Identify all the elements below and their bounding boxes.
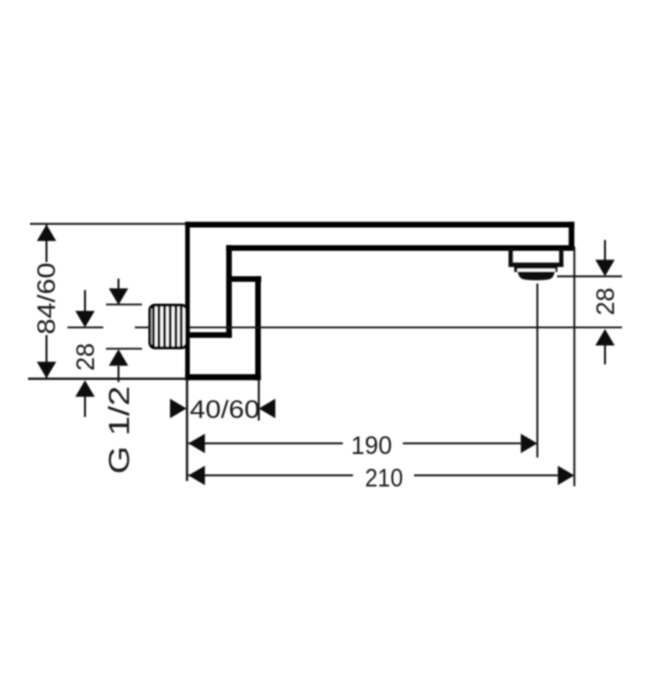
wire 210 dim line left bbox=[188, 474, 353, 476]
wire 190 extension bbox=[536, 284, 538, 458]
wire right28 leader above bbox=[604, 240, 606, 260]
wire escutcheon right edge bbox=[255, 276, 261, 380]
wire right28 leader below bbox=[604, 345, 606, 364]
arrow G12 up bbox=[109, 349, 128, 366]
svg-text:190: 190 bbox=[351, 432, 392, 460]
wire left28 leader below bbox=[84, 396, 86, 417]
wire centerline seg1 bbox=[67, 327, 103, 329]
svg-text:G 1/2: G 1/2 bbox=[104, 386, 136, 474]
wire G12 tick top bbox=[106, 304, 142, 306]
wire inlet bottom horizontal bbox=[187, 332, 232, 338]
arrow left28 down bbox=[75, 311, 94, 328]
wire centerline main bbox=[189, 327, 622, 329]
wire top extension line bbox=[30, 223, 186, 225]
wire centerline seg2 bbox=[135, 327, 150, 329]
wire 40/60 right extension bbox=[258, 379, 260, 421]
wire aerator step1 bottom bbox=[509, 263, 564, 267]
arrow 190 left bbox=[188, 434, 205, 453]
wire bottom-left extension line bbox=[28, 378, 186, 380]
wire inner vertical bbox=[226, 245, 232, 338]
wire 210 extension bbox=[573, 247, 575, 487]
wire 84/60 dim line upper bbox=[46, 224, 48, 262]
wire G12 tick bottom bbox=[106, 348, 142, 350]
arrow 210 left bbox=[188, 466, 205, 485]
arrow 40/60 right-side bbox=[259, 399, 276, 418]
wire left28 leader above bbox=[84, 290, 86, 312]
svg-text:28: 28 bbox=[72, 343, 100, 371]
thin lines bbox=[28, 223, 622, 486]
wire aerator step2 band bbox=[514, 267, 557, 273]
arrow right28 down bbox=[595, 260, 614, 277]
svg-text:210: 210 bbox=[365, 464, 403, 492]
arrow 84/60 up bbox=[37, 225, 56, 242]
wire escutcheon bottom bbox=[185, 374, 261, 380]
wire arm right edge bbox=[569, 222, 575, 249]
wire 40/60 left extension bbox=[186, 379, 188, 481]
wire wall plate left edge bbox=[185, 222, 190, 381]
aerator outlet bbox=[509, 249, 564, 281]
wire G12 leader below bbox=[118, 366, 120, 382]
svg-text:28: 28 bbox=[592, 288, 620, 316]
wire 190 dim line left bbox=[188, 442, 342, 444]
wire escutcheon top bbox=[228, 276, 261, 282]
connector body outline bbox=[150, 305, 187, 348]
wire aerator step1 left bbox=[509, 249, 513, 268]
wire right28 extension bbox=[557, 275, 622, 277]
arrows bbox=[37, 225, 615, 486]
aerator step2 face bbox=[517, 269, 555, 272]
wire 210 dim line right bbox=[414, 474, 558, 476]
wire 190 dim line right bbox=[403, 442, 521, 444]
arrow left28 up bbox=[75, 380, 94, 397]
wire top arm top edge bbox=[185, 222, 574, 228]
wire arm bottom edge bbox=[226, 245, 574, 251]
spout body outline bbox=[185, 222, 574, 381]
wire 84/60 dim line lower bbox=[46, 335, 48, 379]
wire G12 leader above bbox=[118, 279, 120, 290]
wire aerator step1 right bbox=[559, 249, 563, 268]
arrow 40/60 left-side bbox=[170, 399, 187, 418]
arrow G12 down bbox=[109, 288, 128, 305]
svg-text:84/60: 84/60 bbox=[33, 263, 61, 335]
arrow 84/60 down bbox=[37, 362, 56, 379]
aerator dome bbox=[518, 272, 555, 281]
arrow 190 right bbox=[521, 434, 538, 453]
connector thread hatch bbox=[153, 306, 181, 347]
arrow 210 right bbox=[558, 466, 575, 485]
arrow right28 up bbox=[595, 329, 614, 346]
svg-text:40/60: 40/60 bbox=[190, 396, 260, 424]
threaded connector G1/2 bbox=[150, 305, 187, 348]
